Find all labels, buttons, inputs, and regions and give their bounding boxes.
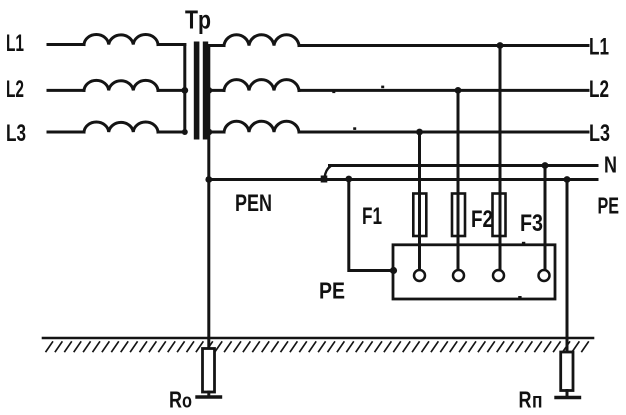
earth surface line <box>43 337 593 340</box>
transformer T core bar right <box>203 42 208 140</box>
wire L2 primary lead <box>48 89 84 92</box>
wire N drop to socket <box>544 166 547 270</box>
inductor L1 primary winding <box>84 34 158 44</box>
earth electrode bar Ro <box>197 395 221 398</box>
socket contact 2 <box>453 270 464 281</box>
wire fuse F1 internal <box>418 194 421 237</box>
wire L3 secondary from bus <box>209 131 224 134</box>
node N split <box>321 176 328 183</box>
wire L2 drop to fuse F2 <box>457 90 460 269</box>
wire L1 drop to fuse F3 <box>499 46 502 270</box>
wire Ro stem <box>207 392 210 396</box>
svg-text:PE: PE <box>319 278 345 304</box>
wire PE branch down <box>349 180 392 271</box>
wire primary star bus <box>183 45 186 133</box>
earth electrode bar Rp <box>556 396 580 399</box>
wire artifact tick box top <box>522 242 525 245</box>
wire artifact tick L2a <box>332 91 335 94</box>
node L1 tap <box>497 42 504 49</box>
inductor L3 secondary winding <box>224 121 299 132</box>
wire L1 line to right <box>299 44 588 47</box>
svg-text:F3: F3 <box>520 210 543 237</box>
wire L1 primary to bus <box>158 43 185 46</box>
transformer T core bar left <box>194 42 200 140</box>
inductor L3 primary winding <box>84 122 158 132</box>
node L2 tap <box>455 87 462 94</box>
socket outlet box <box>393 245 555 299</box>
fuse F1 <box>413 194 426 237</box>
socket contact 1 <box>414 270 425 281</box>
svg-text:L2: L2 <box>589 76 609 103</box>
wire fuse F3 internal <box>499 194 502 237</box>
wire artifact tick box bottom <box>518 296 521 299</box>
wire L3 primary to bus <box>158 131 185 134</box>
svg-text:PE: PE <box>598 193 620 219</box>
node PE right tap <box>564 176 571 183</box>
node PE at socket box <box>390 267 397 274</box>
wire PEN horizontal / PE line <box>209 178 597 181</box>
svg-text:F1: F1 <box>362 203 382 230</box>
svg-text:Tp: Tp <box>185 5 211 35</box>
node primary L3 junction <box>182 129 188 135</box>
node secondary L2 junction <box>205 87 212 94</box>
inductor L2 primary winding <box>84 80 158 90</box>
node PE branch junction <box>345 176 352 183</box>
resistor Rp earth electrode <box>561 352 573 391</box>
inductor L2 secondary winding <box>224 80 299 91</box>
wire N line <box>330 164 598 167</box>
wire L2 line to right <box>299 89 588 92</box>
svg-text:PEN: PEN <box>235 190 272 217</box>
svg-text:N: N <box>604 152 617 178</box>
svg-text:L3: L3 <box>589 120 610 147</box>
svg-text:L1: L1 <box>6 30 24 57</box>
fuse F3 <box>493 194 506 237</box>
wire artifact tick L3a <box>353 127 356 130</box>
wire secondary bus / PEN conductor vertical <box>207 46 210 349</box>
wire L1 secondary from bus <box>209 44 224 47</box>
wire L1 primary lead <box>48 43 84 46</box>
node primary L2 junction <box>181 87 188 94</box>
svg-text:o: o <box>182 391 192 413</box>
fuse F2 <box>452 194 465 237</box>
wire PE drop to earth electrode <box>566 180 569 353</box>
svg-text:R: R <box>519 387 532 413</box>
socket contact 3 <box>493 270 504 281</box>
wire L3 primary lead <box>48 131 84 134</box>
wire L3 drop to fuse F1 <box>418 132 421 270</box>
svg-text:L3: L3 <box>6 120 26 147</box>
inductor L1 secondary winding <box>224 35 299 46</box>
svg-text:R: R <box>169 387 182 413</box>
svg-text:L2: L2 <box>6 76 24 103</box>
svg-text:F2: F2 <box>471 206 493 233</box>
wire L2 secondary from bus <box>209 89 224 92</box>
node N tap <box>542 162 549 169</box>
socket contact 4 <box>539 270 550 281</box>
node L3 tap <box>416 129 423 136</box>
svg-text:L1: L1 <box>589 34 609 61</box>
wire fuse F2 internal <box>457 194 460 237</box>
node secondary L3 junction <box>205 129 212 136</box>
resistor Ro earth electrode <box>203 349 215 393</box>
wire N split hook <box>325 166 331 178</box>
wire L2 primary to bus <box>158 89 185 92</box>
node PEN junction <box>205 176 212 183</box>
wire artifact tick L2b <box>381 86 384 89</box>
wire Rp stem <box>566 391 569 397</box>
wire L3 line to right <box>299 131 588 134</box>
earth hatching <box>46 342 588 352</box>
svg-text:п: п <box>532 390 543 413</box>
